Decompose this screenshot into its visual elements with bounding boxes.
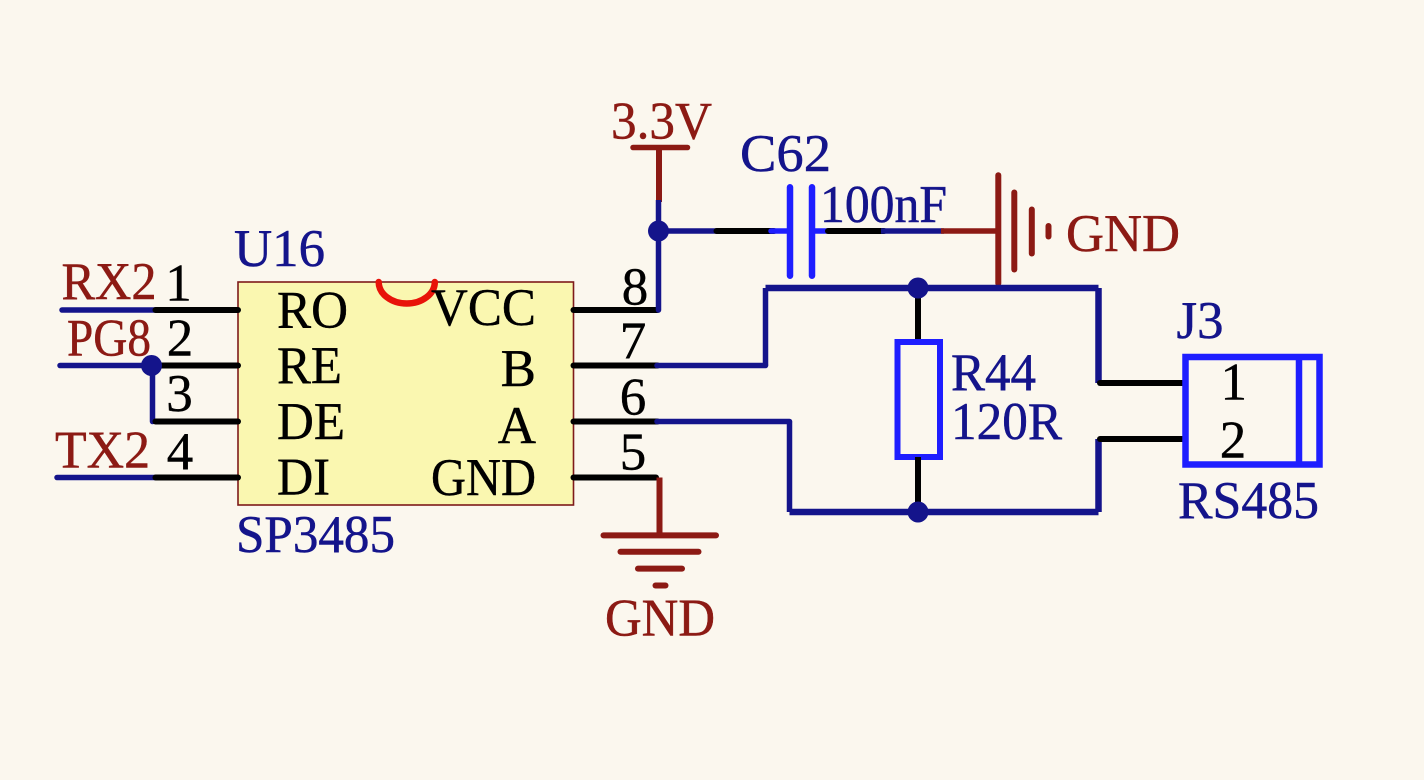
ground symbol bottom bar 1 <box>604 532 717 538</box>
pin 4 stub <box>156 475 239 481</box>
svg-text:1: 1 <box>1221 354 1248 412</box>
svg-text:TX2: TX2 <box>55 422 150 480</box>
capacitor C62 left lead <box>771 228 787 234</box>
pin 7 stub <box>574 363 658 369</box>
wire pin6 to riser <box>657 419 790 425</box>
svg-text:C62: C62 <box>740 125 831 183</box>
wire top bus B net <box>766 285 1099 292</box>
wire 3.3V to node <box>656 200 662 231</box>
capacitor C62 right plate <box>809 187 816 275</box>
svg-text:GND: GND <box>431 449 536 507</box>
capacitor C62 left plate <box>787 187 794 275</box>
capacitor C62 left pin <box>717 228 775 234</box>
pin 5 stub <box>574 475 657 481</box>
ground symbol bottom bar 4 <box>656 583 666 589</box>
wire bottom bus corner up to J3 pin2 <box>1095 439 1102 512</box>
connector J3 body <box>1186 357 1320 465</box>
wire top bus corner down to J3 pin1 <box>1095 288 1102 383</box>
svg-text:7: 7 <box>620 313 647 371</box>
power 3.3V bar <box>633 145 688 151</box>
svg-text:DE: DE <box>277 393 345 451</box>
wire pin7 to riser <box>657 363 766 369</box>
svg-text:VCC: VCC <box>431 279 536 337</box>
svg-text:3.3V: 3.3V <box>611 93 712 151</box>
wire bottom bus A net <box>790 509 1099 516</box>
svg-text:A: A <box>498 397 536 455</box>
capacitor C62 right lead <box>815 228 830 234</box>
ground symbol right bar 4 <box>1046 226 1052 237</box>
node R44 top junction <box>908 278 929 299</box>
wire TX2 net <box>57 475 156 481</box>
pin 3 stub <box>156 419 239 425</box>
wire PG8 net <box>60 363 151 369</box>
svg-text:DI: DI <box>277 449 330 507</box>
resistor R44 body <box>898 342 941 457</box>
pin 8 stub <box>574 307 658 313</box>
svg-text:6: 6 <box>620 369 647 427</box>
svg-text:2: 2 <box>1220 412 1247 470</box>
svg-text:RS485: RS485 <box>1178 472 1319 530</box>
svg-text:3: 3 <box>166 365 193 423</box>
svg-text:RE: RE <box>277 337 342 395</box>
connector J3 divider <box>1296 357 1303 465</box>
wire pin6 riser down <box>787 422 793 513</box>
svg-text:GND: GND <box>1066 205 1180 263</box>
ground wire pin5 (dark red) <box>657 478 663 536</box>
svg-text:J3: J3 <box>1177 292 1224 350</box>
svg-text:SP3485: SP3485 <box>236 506 395 564</box>
power 3.3V stub <box>656 146 662 202</box>
connector J3 stub pin1 <box>1100 380 1183 386</box>
svg-text:120R: 120R <box>951 393 1063 451</box>
node R44 bottom junction <box>908 502 929 523</box>
wire PG8 vertical to pin 3 <box>150 366 156 422</box>
ground symbol right bar 2 <box>1011 193 1017 270</box>
pin 1 stub <box>156 307 239 313</box>
ground symbol right bar 3 <box>1029 210 1035 254</box>
svg-text:B: B <box>501 340 536 398</box>
resistor R44 bottom pin <box>915 457 921 512</box>
svg-text:RX2: RX2 <box>62 253 157 311</box>
resistor R44 top pin <box>915 288 921 342</box>
wire RX2 net <box>62 307 156 313</box>
IC U16 SP3485 body <box>238 282 574 505</box>
svg-text:100nF: 100nF <box>820 176 947 234</box>
wire GND stub (dark red) <box>941 228 999 234</box>
wire node to C62 <box>659 228 720 234</box>
capacitor C62 right pin <box>828 228 884 234</box>
pin 2 stub <box>160 363 238 369</box>
node PG8 junction <box>141 355 162 376</box>
svg-text:PG8: PG8 <box>67 310 151 368</box>
wire pin7 riser up <box>763 288 769 366</box>
wire pin8 riser <box>656 231 662 310</box>
IC notch arc <box>379 282 435 304</box>
svg-text:4: 4 <box>167 423 194 481</box>
ground symbol right (rotated) bar 1 <box>995 175 1001 283</box>
connector J3 stub pin2 <box>1100 436 1183 442</box>
svg-text:GND: GND <box>605 590 715 648</box>
svg-text:1: 1 <box>165 255 192 313</box>
ground symbol bottom bar 3 <box>638 566 682 572</box>
svg-text:U16: U16 <box>234 220 325 278</box>
svg-text:RO: RO <box>277 282 348 340</box>
svg-text:2: 2 <box>167 310 194 368</box>
wire C62 to GND <box>881 228 944 234</box>
svg-text:8: 8 <box>622 259 649 317</box>
node 3.3V junction <box>648 221 669 242</box>
svg-text:5: 5 <box>620 424 647 482</box>
pin 6 stub <box>574 419 658 425</box>
ground symbol bottom bar 2 <box>621 549 699 555</box>
